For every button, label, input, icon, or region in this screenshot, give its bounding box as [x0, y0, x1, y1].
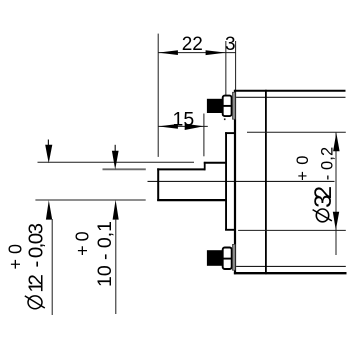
boss top edge [225, 132, 235, 134]
O32 dimension line [335, 133, 337, 255]
extension line shaft bottom level [35, 199, 145, 201]
svg-text:22: 22 [182, 34, 203, 55]
O32 arrow up [333, 133, 340, 152]
arrow left of dim 15 [158, 124, 178, 129]
bolt top (threaded end) [207, 99, 223, 113]
boss bottom edge [225, 229, 235, 231]
down arrow O12 top [47, 140, 49, 147]
body cover joint line bottom [236, 265, 346, 267]
down arrow flat top [114, 145, 116, 152]
arrow right of dim 15 [185, 124, 204, 130]
extension line at boss face (dim 3 left) [225, 41, 227, 96]
shaft bottom edge [157, 199, 226, 201]
body internal vertical line [265, 90, 267, 274]
svg-text:12: 12 [25, 274, 48, 293]
extension line stub below nut [224, 118, 226, 120]
nut top [223, 96, 232, 117]
shaft top edge [204, 162, 227, 164]
up arrow O12 bottom with leader [46, 200, 52, 219]
svg-text:3: 3 [225, 34, 236, 55]
O32 extension line top [247, 131, 346, 133]
arrow right of dim 22 [206, 50, 226, 55]
body top edge [234, 90, 346, 92]
svg-text:15: 15 [173, 108, 195, 130]
centerline [148, 180, 335, 182]
body front face [234, 90, 236, 274]
dimension line 22 / 3 [158, 52, 235, 54]
nut bottom [223, 248, 232, 270]
up arrow 10 bottom with leader [113, 200, 119, 220]
shaft tip face [157, 168, 159, 201]
extension line at end of shaft flat [203, 114, 205, 157]
svg-text:32: 32 [310, 186, 337, 208]
svg-text:+ 0: + 0 [294, 156, 312, 181]
dimension line 15 [158, 125, 208, 127]
O32 extension line bottom [238, 229, 346, 231]
extension line at body face (dim 3 right) [235, 41, 237, 90]
label O12 -0,03 [28, 296, 42, 309]
label O32 -0,2 [316, 209, 328, 222]
O32 arrow down [333, 212, 339, 231]
extension line flat level (10) [103, 168, 146, 170]
svg-text:+ 0: + 0 [72, 231, 92, 256]
svg-text:- 0,03: - 0,03 [25, 223, 48, 268]
bolt bottom (threaded end) [207, 250, 223, 266]
washer top [233, 92, 236, 119]
extension line shaft top level (O12) [38, 161, 195, 163]
arrow left of dim 22 [158, 50, 178, 55]
boss O32 front face [225, 132, 227, 230]
svg-text:+ 0: + 0 [6, 244, 26, 270]
washer bottom [233, 244, 236, 270]
body bottom edge [234, 272, 347, 274]
svg-text:10 - 0,1: 10 - 0,1 [94, 221, 116, 287]
svg-text:- 0,2: - 0,2 [318, 147, 336, 181]
body cover joint line top [236, 96, 345, 98]
extension line left (shared by dim 22 and dim 15) [157, 34, 159, 157]
shaft flat surface [157, 168, 205, 170]
shaft flat step [204, 162, 206, 170]
